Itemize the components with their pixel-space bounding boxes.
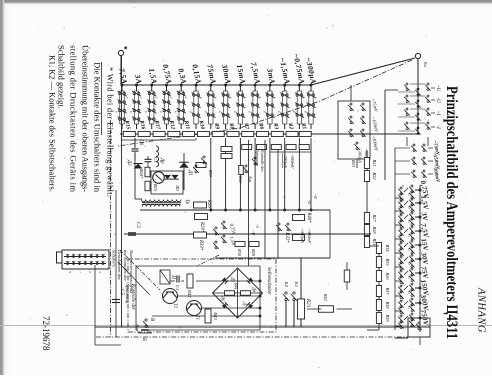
legend contact marks — [65, 255, 69, 258]
resistor chain R34-R39 — [378, 242, 380, 330]
transistor T1 — [187, 301, 202, 316]
resistor R17 — [153, 132, 165, 137]
resistor R43 — [205, 309, 211, 323]
diode D1 — [179, 162, 189, 168]
meter rectifier diodes D3 D4 — [171, 175, 178, 179]
svg-text:R21: R21 — [372, 158, 377, 166]
range branch 15mA — [239, 84, 242, 87]
meter microamperemeter — [153, 172, 165, 184]
svg-text:К2: К2 — [284, 281, 289, 288]
svg-text:Д6: Д6 — [221, 295, 226, 302]
svg-text:~300µA: ~300µA — [283, 153, 288, 168]
svg-text:R35: R35 — [385, 257, 390, 266]
transistor T2 — [163, 289, 178, 304]
relay P box — [160, 270, 170, 284]
wire ladder right end down — [367, 329, 379, 331]
legend small box — [57, 252, 63, 263]
bridge cross wires — [213, 292, 263, 294]
svg-text:Übereinstimmung mit der oberen: Übereinstimmung mit der oberen Ausgangs- — [81, 45, 91, 192]
bottom dash-dot wire — [110, 120, 112, 337]
svg-text:✱: ✱ — [123, 46, 128, 50]
terminal input top — [415, 53, 420, 58]
bottom connector wires — [94, 265, 96, 345]
rail mid wire top — [329, 210, 331, 258]
svg-text:~300mV: ~300mV — [307, 228, 312, 245]
svg-text:R28*: R28* — [199, 221, 204, 233]
scan page edge left — [0, 0, 3, 375]
resistor R39 small — [196, 163, 206, 168]
meter block frame — [151, 171, 183, 194]
terminal bottom-left with asterisk — [118, 50, 123, 55]
svg-text:К1: К1 — [294, 281, 299, 287]
range branch 3mA — [268, 84, 271, 87]
svg-text:Тр: Тр — [184, 199, 189, 205]
battery box internal wires — [136, 265, 260, 267]
svg-text:R29: R29 — [251, 248, 256, 257]
svg-text:Д1: Д1 — [187, 169, 192, 176]
range branch 7,5A — [121, 84, 124, 87]
svg-text:C5: C5 — [119, 289, 124, 295]
legend contact marks — [71, 255, 75, 258]
range branch 30mA — [224, 84, 227, 87]
pushbutton link dash-dot small — [197, 255, 219, 266]
wire bottom terminal to bus — [120, 56, 122, 85]
resistor R23 — [298, 299, 305, 319]
scan crease line — [0, 325, 492, 327]
mid horizontal feed wires — [277, 150, 279, 259]
mv box feed wires — [350, 85, 352, 101]
legend box pushbutton numbering — [62, 250, 109, 269]
resistor R15 — [123, 132, 135, 137]
svg-text:R34: R34 — [385, 243, 390, 252]
contacts near R32 — [285, 223, 291, 231]
resistor R41a — [319, 306, 334, 313]
svg-text:-I: -I — [435, 125, 441, 129]
legend contact marks — [89, 255, 93, 258]
svg-text:R32*: R32* — [284, 231, 289, 243]
svg-text:R39: R39 — [208, 169, 213, 178]
resistor R25 — [145, 181, 150, 191]
range branch 0,3A — [180, 84, 183, 87]
svg-text:Selbstschalter: Selbstschalter — [266, 267, 271, 295]
rail R1-R17 vertical — [120, 133, 420, 135]
bus current ranges — [121, 84, 311, 86]
svg-text:R44: R44 — [238, 175, 243, 183]
svg-text:~I: ~I — [255, 224, 260, 228]
footnote rule — [101, 62, 103, 135]
resistor R35 — [376, 257, 381, 268]
resistor R7 — [242, 132, 254, 137]
resistor R37 — [376, 286, 381, 297]
svg-text:* Wird bei der Einstellung gew: * Wird bei der Einstellung gewählt. — [106, 67, 115, 197]
capacitor C2 — [128, 232, 136, 234]
resistor between rails — [344, 270, 350, 282]
mV selector box — [338, 101, 370, 159]
svg-text:Д5: Д5 — [231, 276, 236, 283]
legend row wires — [64, 256, 106, 258]
resistor R21 — [364, 158, 369, 169]
rectifier bridge D5-D8 — [213, 268, 263, 318]
rail mid 1 — [140, 209, 330, 211]
function switch bracket wires — [384, 90, 386, 180]
diode D2 — [134, 164, 143, 169]
svg-text:Кл: Кл — [423, 61, 428, 67]
resistor R26* — [194, 202, 207, 208]
resistor R33* — [194, 232, 207, 238]
scan page edge top — [0, 0, 492, 3]
svg-text:R37: R37 — [385, 286, 390, 295]
wire C1 R24 R25 series — [147, 156, 149, 159]
svg-text:~300mV: ~300mV — [290, 153, 295, 170]
wire bus top diagonal to terminal — [311, 58, 415, 85]
svg-text:R22: R22 — [372, 171, 377, 180]
svg-text:R36: R36 — [385, 271, 390, 280]
resistor R29 — [249, 242, 259, 247]
pushbutton link diagonals — [120, 250, 160, 290]
svg-text:ИП: ИП — [175, 184, 179, 191]
svg-text:Т2: Т2 — [172, 303, 177, 309]
function switch contact columns — [431, 87, 435, 89]
wire top terminal to rail — [417, 59, 419, 134]
svg-text:R40*: R40* — [306, 211, 311, 223]
resistor R12 — [168, 132, 180, 137]
range branch 7,5mA — [254, 84, 257, 87]
svg-text:C2: C2 — [135, 222, 140, 228]
svg-text:R41: R41 — [234, 282, 239, 290]
staggered resistors R1-R5 second row — [299, 145, 309, 150]
svg-text:ANHANG: ANHANG — [476, 287, 487, 333]
svg-text:der Kontakte der: der Kontakte der — [123, 250, 128, 281]
svg-text:R27: R27 — [372, 213, 377, 222]
selbstschalter dash-dot box — [128, 259, 276, 332]
range branch ~300µA — [310, 84, 313, 87]
svg-text:Д7: Д7 — [243, 301, 248, 308]
svg-text:Drucktasten des: Drucktasten des — [117, 249, 122, 280]
range branch ~0,75mA — [298, 84, 301, 87]
resistor R38 — [376, 300, 381, 311]
svg-text:~300µA: ~300µA — [300, 228, 305, 243]
svg-text:stellung der Drucktasten des G: stellung der Drucktasten des Geräts im — [69, 45, 79, 192]
svg-text:R26*: R26* — [206, 199, 211, 211]
svg-text:Prinzipschaltbild des Amperevo: Prinzipschaltbild des Amperevoltmeters Ц… — [443, 86, 460, 339]
svg-text:П: П — [170, 274, 175, 279]
svg-text:C1: C1 — [153, 157, 158, 162]
rail mid 2 — [124, 233, 371, 235]
svg-text:Д2: Д2 — [126, 159, 131, 166]
wire C6 to transformer — [134, 160, 136, 199]
range branch ~1,5mA — [283, 84, 286, 87]
range branch 0,75A — [165, 84, 168, 87]
svg-text:R23: R23 — [305, 298, 310, 308]
right vertical rails — [95, 326, 430, 328]
voltage ladder bus — [419, 185, 421, 332]
bottom horizontal wires — [121, 56, 123, 327]
svg-text:R33*: R33* — [198, 239, 203, 251]
output selector contacts — [201, 156, 207, 164]
svg-text:R23: R23 — [351, 159, 356, 168]
svg-text:R30: R30 — [237, 248, 242, 257]
svg-text:R25: R25 — [153, 183, 158, 192]
resistor R10 — [197, 132, 209, 137]
resistor chain R21-R31 — [366, 150, 368, 246]
resistor R1 — [299, 132, 311, 137]
resistor R42 — [187, 274, 193, 288]
capacitor C1 — [145, 158, 152, 160]
svg-text:R31: R31 — [372, 237, 377, 245]
resistor R16 — [138, 132, 150, 137]
range branch 1,5A — [150, 84, 153, 87]
contacts K1 K2 — [291, 292, 297, 301]
ladder lower wire — [394, 148, 396, 330]
svg-text:Nummerierungsschema: Nummerierungsschema — [129, 249, 134, 294]
range branch 0,15A — [195, 84, 198, 87]
resistor R8 — [227, 132, 239, 137]
svg-text:R24*: R24* — [139, 168, 144, 179]
resistor R28* — [195, 214, 208, 220]
resistors R40 R41 in bridge — [241, 291, 251, 296]
resistor R44 — [239, 166, 244, 175]
svg-text:В: В — [149, 318, 154, 321]
second row wire — [270, 151, 311, 153]
resistor R32* — [293, 235, 305, 241]
capacitor C3 — [178, 276, 180, 283]
legend contact marks — [101, 255, 105, 258]
svg-text:Die Kontakte des Umschalters s: Die Kontakte des Umschalters sind in — [93, 62, 103, 193]
high current collector wire — [121, 139, 196, 141]
resistor R27 — [364, 213, 369, 224]
svg-text:Д8: Д8 — [252, 286, 257, 293]
branch continuation wires — [310, 138, 312, 210]
capacitor C6 — [132, 148, 139, 150]
rail mid 3 — [215, 257, 330, 259]
resistor R34 — [376, 243, 381, 254]
kontrolle pushbutton contacts — [252, 157, 258, 165]
svg-text:К1, К2 — Kontakte des Selbstsc: К1, К2 — Kontakte des Selbstschalters. — [48, 55, 58, 192]
svg-text:Spannung: Spannung — [255, 150, 260, 166]
resistor R24* — [145, 167, 150, 177]
resistor R9 — [212, 132, 224, 137]
range branch 3A — [135, 84, 138, 87]
resistor R30 — [235, 242, 245, 247]
svg-text:Др: Др — [159, 157, 164, 164]
capacitor C5 — [112, 299, 120, 301]
choke Dr — [156, 146, 159, 167]
svg-text:R38: R38 — [385, 300, 390, 309]
resistor pair small — [221, 147, 232, 152]
battery — [141, 329, 149, 331]
legend contact marks — [83, 255, 87, 258]
legend contact marks — [95, 255, 99, 258]
svg-text:R39: R39 — [385, 313, 390, 322]
resistor R2 — [286, 132, 298, 137]
range branch 75mA — [209, 84, 212, 87]
svg-text:C6: C6 — [138, 139, 143, 145]
svg-text:Schalters: Schalters — [111, 250, 116, 267]
svg-text:R42: R42 — [187, 289, 192, 298]
svg-text:~I: ~I — [435, 111, 441, 116]
resistor R28 — [364, 225, 369, 236]
resistor R31 — [364, 237, 369, 248]
ladder end box 750V — [408, 318, 430, 337]
svg-text:R41: R41 — [323, 293, 328, 301]
switch V on-off — [143, 319, 149, 328]
resistor R3 — [271, 132, 283, 137]
svg-text:Б: Б — [141, 337, 146, 341]
svg-text:~300µA: ~300µA — [358, 148, 363, 163]
resistor R36 — [376, 271, 381, 282]
mechanical link dash-dot — [118, 60, 412, 146]
resistor R40* — [293, 215, 305, 221]
svg-text:C3: C3 — [175, 285, 180, 291]
svg-text:72-19678: 72-19678 — [41, 316, 51, 351]
resistor R22 — [364, 171, 369, 182]
resistor R39 — [376, 313, 381, 324]
svg-text:R28: R28 — [372, 225, 377, 234]
resistor R11 — [183, 132, 195, 137]
resistor R6 — [257, 132, 269, 137]
legend contact marks — [77, 255, 81, 258]
transformer Tp — [141, 200, 181, 202]
